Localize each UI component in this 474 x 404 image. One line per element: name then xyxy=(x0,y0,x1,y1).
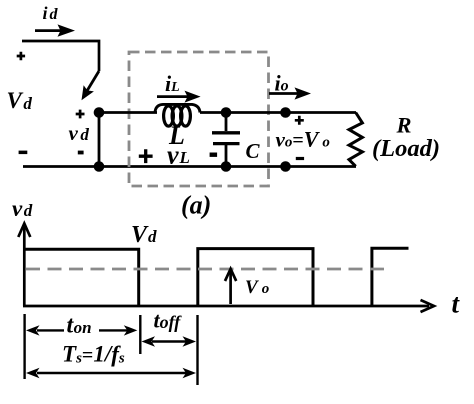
wire top rail (node A to inductor) xyxy=(99,111,157,114)
svg-text:vo=Vo: vo=Vo xyxy=(276,127,330,152)
minus Vd source xyxy=(19,151,28,155)
node D output top xyxy=(280,107,291,118)
arrow id xyxy=(35,24,75,36)
svg-text:Vd: Vd xyxy=(7,88,33,113)
extension line x=24 xyxy=(23,314,25,379)
arrow iL xyxy=(157,91,201,103)
svg-text:(Load): (Load) xyxy=(372,135,440,162)
y-axis xyxy=(18,224,30,307)
switch (diagonal arrow) xyxy=(82,71,100,100)
svg-text:vd: vd xyxy=(69,121,90,145)
svg-text:io: io xyxy=(275,71,289,96)
svg-text:Vd: Vd xyxy=(131,222,157,248)
svg-text:vL: vL xyxy=(167,141,190,170)
extension line x=140 xyxy=(139,315,141,354)
svg-text:id: id xyxy=(43,3,59,23)
inductor L xyxy=(155,104,200,126)
svg-text:ton: ton xyxy=(67,313,92,339)
minus vL / capacitor xyxy=(210,153,218,157)
svg-text:C: C xyxy=(246,139,261,163)
x-axis xyxy=(23,300,434,312)
node C top xyxy=(221,107,232,118)
node B (bottom left junction) xyxy=(94,161,105,172)
svg-text:vd: vd xyxy=(12,196,33,221)
node A (switch output, top) xyxy=(94,107,105,118)
plus vd xyxy=(76,110,85,119)
plus vL xyxy=(139,149,153,163)
minus vo xyxy=(296,157,304,160)
waveform pulse 1 xyxy=(24,249,138,305)
minus vd xyxy=(78,151,84,155)
ton dimension arrow xyxy=(26,325,137,335)
node E output bottom xyxy=(280,161,291,172)
arrow Vo level xyxy=(225,269,236,304)
dashed converter box xyxy=(129,52,269,186)
plus vo xyxy=(295,116,304,125)
capacitor C xyxy=(212,113,240,167)
svg-text:(a): (a) xyxy=(181,191,211,220)
arrow io xyxy=(269,87,311,99)
svg-text:t: t xyxy=(452,289,461,319)
svg-text:Vo: Vo xyxy=(245,277,269,298)
wire left branch vertical xyxy=(98,113,101,167)
svg-text:Ts=1/fs: Ts=1/fs xyxy=(62,342,125,367)
waveform pulse 3 xyxy=(372,248,409,305)
wire input top L xyxy=(22,41,99,71)
extension line x=197.5 xyxy=(196,315,198,385)
node C bottom xyxy=(221,161,232,172)
resistor R zigzag xyxy=(349,113,362,167)
wire bottom rail xyxy=(23,165,356,168)
Ts dimension arrow xyxy=(26,368,196,378)
dashed Vo level line xyxy=(26,268,389,271)
plus Vd source xyxy=(17,52,25,60)
wire top rail (inductor to resistor) xyxy=(200,111,356,114)
svg-text:iL: iL xyxy=(165,71,180,96)
toff dimension arrow xyxy=(142,336,197,346)
waveform pulse 2 xyxy=(198,249,313,305)
svg-text:toff: toff xyxy=(154,308,183,333)
